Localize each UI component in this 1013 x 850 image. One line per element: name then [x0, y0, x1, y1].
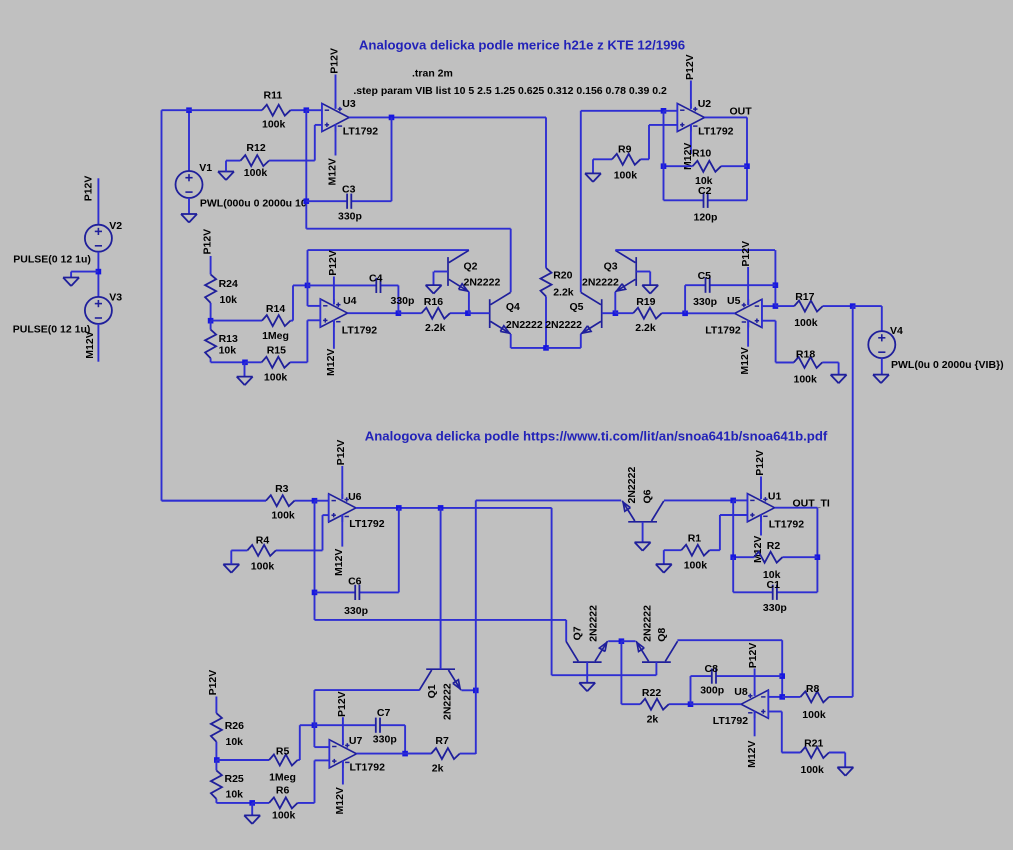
svg-text:M12V: M12V [325, 349, 337, 376]
wire [881, 358, 883, 375]
svg-text:C1: C1 [767, 579, 781, 591]
svg-text:M12V: M12V [334, 787, 346, 814]
svg-text:P12V: P12V [327, 250, 339, 276]
node U7 inverting [312, 722, 318, 728]
wire [313, 690, 315, 725]
svg-text:100k: 100k [802, 709, 826, 721]
ground [873, 375, 889, 384]
node Q5 base [613, 310, 619, 316]
node U6 inverting [312, 498, 318, 504]
svg-text:2N2222: 2N2222 [587, 605, 599, 642]
svg-text:LT1792: LT1792 [349, 518, 385, 530]
svg-text:P12V: P12V [684, 54, 696, 80]
wire U8 V+ stub [754, 669, 756, 696]
svg-text:100k: 100k [794, 317, 818, 329]
ground [642, 285, 658, 294]
transistor Q2 [448, 250, 469, 291]
wire [293, 284, 308, 286]
wire [664, 110, 678, 112]
wire U4 V+ stub [333, 277, 335, 305]
wire [775, 321, 777, 363]
transistor Q6 [622, 501, 664, 522]
wire [433, 272, 435, 286]
wire [188, 198, 190, 214]
svg-text:C8: C8 [705, 663, 719, 675]
node U2 inverting input [661, 108, 667, 114]
wire V4 long vertical [852, 306, 854, 697]
svg-text:2.2k: 2.2k [425, 322, 446, 334]
svg-text:C7: C7 [377, 707, 391, 719]
wire [581, 110, 664, 112]
svg-text:Q4: Q4 [506, 301, 520, 313]
svg-text:P12V: P12V [329, 48, 341, 74]
svg-text:LT1792: LT1792 [342, 325, 378, 337]
node R2 right [815, 554, 821, 560]
svg-text:330p: 330p [391, 295, 415, 307]
wire U5 V+ stub [747, 267, 749, 305]
wire [733, 499, 747, 501]
wire [314, 746, 329, 748]
svg-text:1Meg: 1Meg [269, 772, 296, 784]
wire [510, 229, 512, 293]
svg-text:R3: R3 [275, 483, 289, 495]
node R2 left [730, 554, 736, 560]
svg-text:R19: R19 [636, 296, 655, 308]
wire [621, 640, 635, 642]
svg-text:Q6: Q6 [641, 489, 653, 503]
wire Q3 emitter [614, 292, 616, 313]
svg-text:LT1792: LT1792 [705, 325, 741, 337]
wire [768, 696, 782, 698]
wire U7 V- stub [342, 761, 344, 785]
svg-text:2.2k: 2.2k [635, 322, 656, 334]
svg-text:M12V: M12V [746, 740, 758, 767]
resistor R19 [615, 308, 685, 319]
wire [230, 550, 232, 564]
svg-text:100k: 100k [684, 559, 708, 571]
node R8 left [779, 694, 785, 700]
wire [307, 250, 309, 285]
wire [649, 272, 651, 286]
svg-text:10k: 10k [226, 736, 244, 748]
resistor R24 [205, 274, 216, 320]
node R11 right / U3 inverting input [304, 107, 310, 113]
svg-text:R6: R6 [276, 785, 290, 797]
wire [732, 557, 734, 592]
node Q1 emitter [473, 688, 479, 694]
svg-text:100k: 100k [794, 373, 818, 385]
svg-text:V4: V4 [890, 325, 903, 337]
svg-text:.step param VIB list 10 5 2.5: .step param VIB list 10 5 2.5 1.25 0.625… [353, 85, 667, 97]
node Q1 base [438, 505, 444, 511]
svg-text:2N2222: 2N2222 [545, 319, 582, 331]
resistor R5 [217, 755, 300, 766]
svg-text:PULSE(0 12 1u): PULSE(0 12 1u) [13, 253, 91, 265]
wire [781, 712, 783, 753]
svg-text:2.2k: 2.2k [553, 286, 574, 298]
resistor R26 [211, 713, 222, 760]
svg-text:R10: R10 [692, 147, 711, 159]
wire [620, 641, 622, 704]
wire [732, 500, 734, 557]
resistor R21 [782, 747, 845, 758]
svg-text:M12V: M12V [333, 549, 345, 576]
svg-text:LT1792: LT1792 [713, 715, 749, 727]
svg-text:R9: R9 [618, 144, 632, 156]
svg-text:R18: R18 [796, 348, 815, 360]
svg-text:U8: U8 [734, 686, 748, 698]
svg-text:V1: V1 [199, 162, 212, 174]
svg-text:PWL(0u 0 2000u {VIB}): PWL(0u 0 2000u {VIB}) [891, 359, 1004, 371]
svg-text:Analogova delicka podle merice: Analogova delicka podle merice h21e z KT… [359, 37, 685, 52]
svg-text:P12V: P12V [754, 450, 766, 476]
svg-text:R8: R8 [806, 683, 820, 695]
wire Q1 collector [314, 689, 419, 691]
ground [635, 542, 651, 551]
wire U7 output [357, 753, 432, 755]
svg-text:C6: C6 [348, 576, 362, 588]
resistor R4 [231, 545, 322, 556]
svg-text:C4: C4 [369, 273, 383, 285]
node R24/R13 [208, 318, 214, 324]
wire [774, 250, 776, 306]
wire [225, 161, 227, 172]
svg-text:Q8: Q8 [656, 628, 668, 642]
wire [684, 285, 686, 313]
wire [404, 725, 406, 753]
wire [299, 725, 301, 760]
resistor R14 [211, 315, 293, 326]
svg-text:V3: V3 [109, 292, 122, 304]
wire U8 output [691, 703, 742, 705]
wire Q5 emitter [580, 334, 582, 348]
capacitor C8 [691, 669, 783, 684]
svg-text:10k: 10k [219, 345, 237, 357]
wire [314, 760, 316, 803]
wire Q5 collector riser [580, 111, 582, 292]
capacitor C1 [733, 585, 817, 600]
wire [663, 111, 665, 201]
ground [579, 683, 595, 692]
wire [315, 500, 329, 502]
wire U3 V+ stub [335, 75, 337, 109]
svg-text:C3: C3 [342, 184, 356, 196]
wire Q2 base [434, 271, 448, 273]
svg-text:U4: U4 [343, 295, 357, 307]
transistor Q1 [419, 669, 461, 690]
svg-text:R12: R12 [246, 142, 265, 154]
wire [71, 271, 98, 273]
svg-text:R2: R2 [767, 540, 781, 552]
wire [70, 272, 72, 278]
wire [838, 362, 840, 374]
svg-text:R7: R7 [435, 735, 449, 747]
wire [314, 501, 316, 620]
wire [781, 640, 783, 697]
resistor R22 [621, 699, 690, 710]
svg-text:330p: 330p [344, 605, 368, 617]
wire Q6 base [642, 522, 644, 543]
transistor Q3 [615, 250, 636, 291]
transistor Q5 [581, 292, 602, 334]
wire Q1 emitter [462, 689, 476, 691]
wire [306, 109, 322, 111]
svg-text:100k: 100k [614, 170, 638, 182]
wire [244, 362, 246, 376]
ground [223, 564, 239, 573]
wire [314, 125, 316, 161]
resistor R18 [776, 357, 839, 368]
svg-text:100k: 100k [251, 561, 275, 573]
resistor R15 [245, 357, 307, 368]
svg-text:V2: V2 [109, 220, 122, 232]
resistor R9 [593, 154, 649, 165]
svg-text:LT1792: LT1792 [769, 519, 805, 531]
svg-text:2N2222: 2N2222 [442, 683, 454, 720]
wire U3 output [349, 116, 546, 118]
svg-text:P12V: P12V [335, 440, 347, 466]
svg-text:2N2222: 2N2222 [582, 277, 619, 289]
svg-text:330p: 330p [373, 733, 397, 745]
wire [398, 508, 400, 593]
svg-text:M12V: M12V [84, 331, 96, 358]
svg-text:P12V: P12V [747, 643, 759, 669]
op-amp U6 [329, 494, 356, 522]
node C3 left [304, 198, 310, 204]
svg-text:U3: U3 [342, 98, 356, 110]
wire Q8 base [655, 662, 657, 675]
voltage source V2 [85, 225, 112, 252]
svg-text:330p: 330p [338, 211, 362, 223]
wire [546, 347, 581, 349]
wire U6 output [356, 507, 552, 509]
svg-text:2N2222: 2N2222 [464, 277, 501, 289]
svg-text:U7: U7 [349, 735, 363, 747]
wire [762, 305, 776, 307]
wire [97, 178, 99, 225]
wire [746, 117, 748, 200]
ground [831, 375, 847, 384]
wire [97, 324, 99, 362]
ground [837, 767, 853, 776]
wire [782, 752, 801, 754]
wire [315, 759, 330, 761]
wire [315, 124, 322, 126]
wire [881, 306, 883, 331]
wire [322, 515, 324, 550]
wire [188, 110, 190, 171]
node U4 inverting [305, 283, 311, 289]
wire [307, 285, 309, 306]
wire U2 V+ stub [690, 81, 692, 109]
node V1 top [186, 107, 192, 113]
svg-text:P12V: P12V [202, 229, 214, 255]
node U4 output [396, 310, 402, 316]
svg-text:LT1792: LT1792 [343, 126, 379, 138]
svg-text:100k: 100k [272, 810, 296, 822]
node emitters Q4/Q5 [543, 345, 549, 351]
resistor R16 [398, 308, 468, 319]
svg-text:R15: R15 [267, 344, 286, 356]
svg-text:R22: R22 [642, 687, 661, 699]
op-amp U1 [747, 494, 774, 522]
wire [816, 508, 818, 593]
svg-text:P12V: P12V [82, 176, 94, 202]
svg-text:R4: R4 [256, 535, 270, 547]
node U5 output / C5 [682, 311, 688, 317]
svg-text:100k: 100k [264, 372, 288, 384]
svg-text:R20: R20 [553, 269, 572, 281]
wire Q3 collector run [615, 249, 775, 251]
svg-text:R5: R5 [276, 745, 290, 757]
wire U2 V- stub [690, 124, 692, 154]
node Q4 base [465, 310, 471, 316]
wire feedback down [305, 110, 307, 229]
voltage source V4 [868, 331, 895, 358]
node V2-V3 junction [96, 269, 102, 275]
wire [649, 124, 677, 126]
svg-text:R17: R17 [795, 291, 814, 303]
resistor R17 [775, 301, 852, 312]
wire U5 output [685, 312, 735, 314]
resistor R11 [162, 105, 307, 116]
op-amp U2 [677, 103, 704, 131]
svg-text:300p: 300p [700, 685, 724, 697]
svg-text:Q3: Q3 [604, 261, 618, 273]
resistor R25 [211, 760, 222, 803]
node R13 bottom [242, 360, 248, 366]
wire Q4 emitter [510, 334, 512, 348]
svg-text:R11: R11 [264, 90, 283, 102]
wire U6 V- stub [341, 515, 343, 547]
node U5 noninv input [773, 303, 779, 309]
svg-text:U5: U5 [727, 295, 741, 307]
wire [211, 361, 245, 363]
wire [215, 697, 217, 714]
wire Q7 base/ground [586, 662, 588, 683]
wire [776, 361, 794, 363]
op-amp U8 [741, 690, 768, 718]
wire U2 output [705, 116, 748, 118]
resistor R10 [664, 161, 748, 172]
wire base rail [552, 674, 657, 676]
svg-text:2N2222: 2N2222 [641, 605, 653, 642]
svg-text:2k: 2k [432, 763, 444, 775]
wire [853, 305, 882, 307]
resistor R6 [252, 797, 314, 808]
node C6 right [396, 505, 402, 511]
wire Q5 base [602, 312, 616, 314]
wire U7 V+ stub [342, 717, 344, 745]
voltage source V3 [85, 297, 112, 324]
svg-text:U1: U1 [768, 491, 782, 503]
wire [300, 724, 315, 726]
capacitor C5 [685, 278, 775, 293]
transistor Q7 [566, 641, 608, 662]
svg-text:LT1792: LT1792 [698, 126, 734, 138]
capacitor C7 [314, 718, 405, 733]
transistor Q8 [636, 641, 678, 662]
svg-text:P12V: P12V [336, 691, 348, 717]
svg-text:M12V: M12V [327, 158, 339, 185]
wire [251, 803, 253, 816]
svg-text:100k: 100k [244, 167, 268, 179]
wire U4 V- stub [333, 320, 335, 349]
svg-text:100k: 100k [801, 764, 825, 776]
svg-text:2k: 2k [647, 713, 659, 725]
ground [426, 285, 442, 294]
wire bottom run to Q7 [315, 619, 567, 621]
wire [648, 125, 650, 159]
wire Q3 base [636, 271, 650, 273]
svg-text:M12V: M12V [739, 347, 751, 374]
resistor R7 [405, 748, 476, 759]
wire [313, 725, 315, 747]
svg-text:R25: R25 [225, 773, 244, 785]
svg-text:R26: R26 [225, 720, 244, 732]
svg-text:P12V: P12V [207, 670, 219, 696]
svg-text:330p: 330p [763, 602, 787, 614]
svg-text:R21: R21 [804, 738, 823, 750]
ground [218, 172, 234, 181]
wire Q1 base riser [440, 508, 442, 669]
svg-text:PWL(000u 0 2000u 10: PWL(000u 0 2000u 10 [200, 197, 307, 209]
wire [690, 676, 692, 704]
svg-text:U6: U6 [348, 491, 362, 503]
node R17 right / V4 [850, 303, 856, 309]
wire [565, 620, 567, 641]
wire [306, 320, 308, 362]
node U1 inverting [730, 498, 736, 504]
svg-text:C5: C5 [698, 270, 712, 282]
node U8 output [688, 701, 694, 707]
node Q7/Q8 emitters [619, 638, 625, 644]
wire U1 V+ stub [760, 477, 762, 499]
op-amp U7 [329, 740, 356, 768]
resistor R8 [782, 691, 853, 702]
capacitor C2 [664, 193, 748, 208]
node C5 right [773, 282, 779, 288]
resistor R1 [664, 545, 720, 556]
wire [511, 347, 546, 349]
svg-text:R16: R16 [424, 296, 443, 308]
svg-text:R1: R1 [688, 533, 702, 545]
svg-text:2N2222: 2N2222 [506, 319, 543, 331]
wire U8 V- stub [754, 712, 756, 737]
node R26/R25 [214, 757, 220, 763]
resistor R2 [733, 552, 817, 563]
wire long left vertical [161, 110, 163, 501]
wire lower feedback run [306, 228, 510, 230]
wire [768, 711, 782, 713]
svg-text:.tran 2m: .tran 2m [412, 67, 453, 79]
svg-text:10k: 10k [220, 294, 238, 306]
wire [391, 117, 393, 201]
svg-text:100k: 100k [262, 119, 286, 131]
wire U4 output [348, 312, 399, 314]
wire Q4 base [468, 312, 490, 314]
wire [210, 256, 212, 274]
wire U6 V+ stub [341, 466, 343, 499]
svg-text:R14: R14 [266, 303, 285, 315]
svg-text:U2: U2 [698, 98, 712, 110]
wire Q8 collector run [677, 639, 782, 641]
node C8 right [779, 673, 785, 679]
node R25 bottom [249, 800, 255, 806]
voltage source V1 [176, 171, 203, 198]
op-amp U3 [322, 103, 349, 131]
wire [663, 550, 665, 564]
